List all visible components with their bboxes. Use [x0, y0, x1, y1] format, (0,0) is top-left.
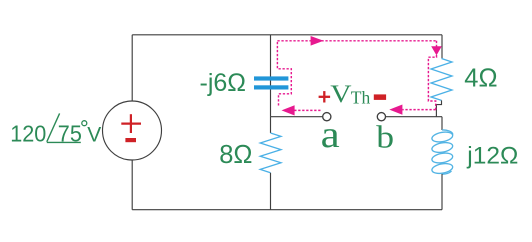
wire: bottom rail — [132, 209, 442, 211]
wire: left branch upper — [131, 35, 133, 101]
dashed path arrow at capacitor (points left) — [282, 105, 295, 115]
svg-text:V: V — [330, 80, 352, 107]
label − (VTh polarity) — [374, 94, 386, 100]
wire: right branch top — [441, 35, 443, 59]
svg-text:75: 75 — [58, 121, 82, 147]
resistor 4Ω zigzag — [431, 59, 452, 101]
svg-text:a: a — [321, 113, 340, 155]
dashed path: toward b — [403, 109, 436, 111]
svg-text:4Ω: 4Ω — [464, 64, 497, 92]
svg-text:b: b — [376, 120, 394, 155]
svg-text:120: 120 — [10, 121, 46, 147]
voltage source VS circle — [103, 101, 162, 160]
dashed path: around 4Ω — [428, 55, 436, 110]
label 120∠75°V — [10, 113, 101, 146]
wire: 8Ω top lead — [270, 117, 272, 133]
wire: top rail — [132, 34, 442, 36]
svg-text:j12Ω: j12Ω — [466, 142, 518, 169]
dashed path: from a toward capacitor — [294, 109, 321, 111]
dashed path: down right side — [436, 41, 438, 47]
terminal a — [323, 113, 331, 121]
capacitor -j6Ω bottom plate — [254, 85, 288, 89]
dashed path arrow on top run (points right) — [311, 36, 324, 46]
voltage source polarity + — [121, 114, 141, 133]
svg-text:Th: Th — [351, 87, 371, 107]
wire: left branch lower — [131, 160, 133, 210]
wire: 4Ω bottom lead with jog — [436, 100, 441, 116]
label + (VTh polarity) — [319, 91, 331, 102]
terminal b — [377, 113, 385, 121]
svg-text:-j6Ω: -j6Ω — [200, 69, 246, 97]
dashed path: around capacitor — [277, 41, 291, 106]
wire: capacitor branch vertical — [270, 35, 272, 117]
wire: middle rail left (node a lead) — [271, 116, 323, 118]
dashed path arrow at b (points left) — [389, 105, 402, 115]
capacitor -j6Ω top plate — [254, 76, 288, 80]
svg-text:8Ω: 8Ω — [219, 141, 252, 169]
dashed path arrow pointing down at 4Ω — [431, 46, 442, 55]
inductor j12Ω coil — [431, 130, 453, 175]
wire: right branch bottom — [441, 174, 443, 210]
resistor 8Ω zigzag — [260, 133, 281, 173]
dashed path: top run — [277, 40, 436, 42]
svg-text:V: V — [87, 124, 101, 147]
wire: middle rail right (node b lead) — [386, 116, 442, 118]
wire: right branch middle — [441, 117, 443, 130]
wire: 8Ω bottom lead — [270, 173, 272, 210]
voltage source polarity - — [125, 138, 136, 142]
